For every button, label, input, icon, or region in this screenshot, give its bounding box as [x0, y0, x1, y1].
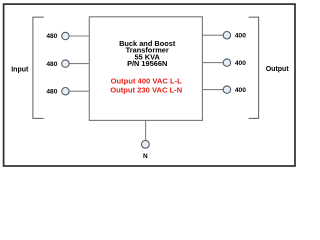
svg-text:Output 230 VAC L-N: Output 230 VAC L-N [110, 86, 182, 95]
svg-text:400: 400 [235, 60, 246, 67]
input bracket [33, 17, 44, 118]
transformer T1 (Buck and Boost) box [89, 17, 202, 121]
terminal output L3 [223, 86, 230, 93]
svg-text:400: 400 [235, 32, 246, 39]
terminal input L1 [62, 32, 69, 39]
terminal neutral N [142, 140, 150, 148]
wire input L2 [69, 63, 89, 65]
svg-text:N: N [143, 153, 148, 160]
wire neutral [145, 121, 147, 140]
wire output L1 [203, 34, 223, 36]
output bracket [249, 17, 259, 118]
svg-text:480: 480 [46, 61, 57, 68]
svg-text:480: 480 [46, 88, 57, 95]
svg-text:Input: Input [11, 66, 29, 73]
transformer T1 output rating label (red) [110, 76, 182, 94]
terminal output L1 [223, 32, 230, 39]
svg-text:Output 400 VAC L-L: Output 400 VAC L-L [111, 76, 183, 85]
terminal input L2 [62, 60, 69, 67]
terminal input L3 [62, 88, 69, 95]
terminal output L2 [223, 59, 230, 66]
svg-text:480: 480 [46, 33, 57, 40]
wire input L1 [69, 35, 89, 37]
outer border frame [4, 4, 295, 166]
svg-text:P/N 19566N: P/N 19566N [127, 59, 167, 68]
svg-text:Output: Output [266, 66, 290, 73]
svg-text:400: 400 [235, 87, 246, 94]
wire output L3 [203, 89, 223, 91]
wire output L2 [203, 62, 223, 64]
transformer T1 name label [119, 39, 176, 68]
wire input L3 [69, 90, 89, 92]
